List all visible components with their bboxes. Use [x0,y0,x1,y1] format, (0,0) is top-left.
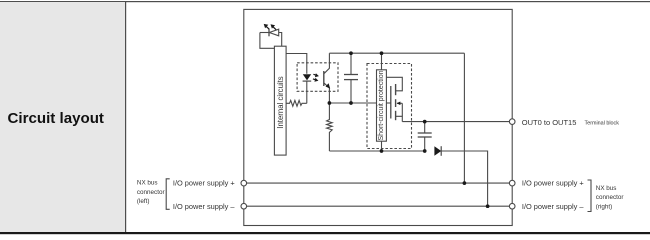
optocoupler U1 dashed box [297,63,338,92]
LED D2 emission arrows [264,24,276,30]
capacitor C2 bottom stem [424,137,426,151]
internal circuits box U2 [274,46,286,155]
svg-text:connector: connector [596,194,624,201]
wire: emitter rail C to short-circuit protection [329,102,376,104]
MOSFET body arrowhead [397,102,401,106]
table header gray cell [0,2,125,232]
svg-text:Short-circuit protection: Short-circuit protection [378,70,385,140]
junction: C1 bottom [349,101,353,105]
capacitor C1 plates [344,74,358,76]
junction: C1 top [349,51,353,55]
MOSFET Q1 gate bar [390,86,392,119]
wire: I/O power supply + line [244,182,512,184]
resistor R1 [286,100,307,106]
resistor R2 [327,103,333,151]
diode D1 cathode bar [440,146,442,156]
wire: diode to power minus drop [441,151,487,206]
terminal: left power plus [241,180,247,186]
opto LED cathode bar [303,80,312,82]
phototransistor Q2 base bar [323,71,325,86]
terminal: right power plus [509,180,515,186]
MOSFET Q1 channel bar [395,84,397,95]
svg-text:NX bus: NX bus [137,179,158,186]
capacitor C1 bottom stem [350,80,352,103]
short-circuit protection block U3 [377,70,387,141]
table top border [0,1,650,2]
svg-text:NX bus: NX bus [596,185,617,192]
junction: C2 bottom [423,149,427,153]
wire: protection block bottom drop [381,141,383,151]
bracket left [166,179,170,210]
wire: rail B down to power plus [463,53,465,183]
MOSFET Q1 drain path from protection block [386,77,402,91]
wire: LED cathode lead to internal circuits box [279,33,282,47]
junction: protection bottom [380,149,384,153]
wire: OUT line [402,121,512,123]
opto LED D3 triangle (filled) [303,74,311,80]
terminal: left power minus [241,203,247,209]
terminal: OUT [509,119,515,125]
wire: rail A from internal circuits to opto LED [286,54,307,74]
svg-text:(right): (right) [596,203,612,210]
bracket right [588,180,592,212]
wire: LED loop left vertical [260,33,275,49]
MOSFET Q1 source path [396,116,403,121]
capacitor C2 plates [418,132,432,134]
capacitor C2 top stem [424,122,426,133]
indicator LED D2 cathode bar [268,29,270,37]
svg-text:connector: connector [137,189,165,196]
svg-text:Internal circuits: Internal circuits [276,76,285,129]
junction: power minus [486,204,490,208]
junction: emitter/R2/rail C [328,101,332,105]
opto light arrows [313,73,319,82]
svg-text:Terminal block: Terminal block [585,120,620,126]
capacitor C1 top stem [350,53,352,74]
svg-text:(left): (left) [137,198,150,205]
indicator LED D2 triangle [269,29,278,36]
unit outline box [244,9,512,225]
MOSFET Q1 gate wire [386,102,390,104]
svg-text:I/O power supply +: I/O power supply + [522,179,584,188]
junction: protection top [380,51,384,55]
rail B: collector to node at x=464 [329,52,464,54]
wire: rail B drop to protection block [381,53,383,70]
junction: C2 top [423,120,427,124]
wire: bottom rail from R2 to capacitor C2 [329,150,424,152]
diode D1 triangle [434,146,441,155]
MOSFET Q1 body arrow [397,102,402,104]
terminal: right power minus [509,203,515,209]
svg-text:I/O power supply –: I/O power supply – [522,202,585,211]
junction: power plus [463,181,467,185]
phototransistor Q2 collector [324,53,330,74]
table column divider [125,1,126,232]
wire: LED anode lead [260,32,269,34]
phototransistor emitter arrowhead [326,83,331,88]
phototransistor Q2 emitter [324,83,330,103]
wire: opto LED cathode down [306,81,308,103]
wire: I/O power supply - line [244,205,512,207]
table bottom border [0,232,650,234]
svg-text:I/O power supply –: I/O power supply – [173,202,236,211]
svg-text:OUT0 to OUT15: OUT0 to OUT15 [522,118,577,127]
svg-text:I/O power supply +: I/O power supply + [173,179,235,188]
short-circuit protection dashed box [367,64,412,149]
svg-text:Circuit layout: Circuit layout [8,110,104,127]
